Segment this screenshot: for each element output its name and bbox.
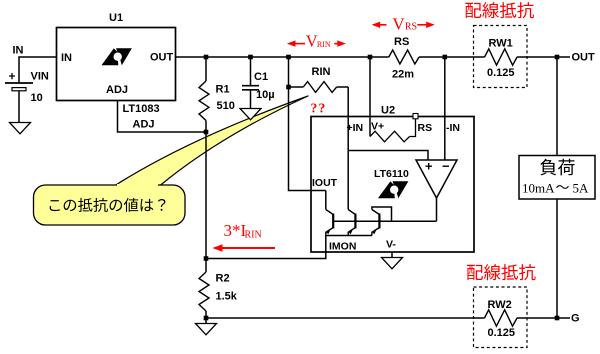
svg-text:10: 10 <box>31 92 43 104</box>
svg-text:ADJ: ADJ <box>133 119 155 131</box>
ground at R2 <box>196 324 217 335</box>
svg-text:V+: V+ <box>371 121 384 133</box>
svg-text:ADJ: ADJ <box>106 84 128 96</box>
wire +IN down to Q2 collector <box>347 151 349 210</box>
svg-text:RW1: RW1 <box>489 38 513 50</box>
wire +IN to op-amp <box>348 151 428 161</box>
resistor R1 510 <box>199 57 235 121</box>
svg-text:IOUT: IOUT <box>312 177 338 189</box>
svg-text:RW2: RW2 <box>488 299 512 311</box>
junction RIN/OUT <box>286 55 291 60</box>
internal sense resistor V+ to RS pin <box>370 119 416 142</box>
annotation VRIN <box>287 31 346 50</box>
resistor RW2 0.125 (wiring resistance) <box>474 287 528 348</box>
svg-text:RIN: RIN <box>317 40 331 49</box>
svg-text:-IN: -IN <box>446 122 460 134</box>
resistor RW1 0.125 (wiring resistance) <box>474 26 528 88</box>
resistor R2 1.5k <box>199 272 238 318</box>
base rail <box>333 220 436 222</box>
regulator U1 LT1083 <box>57 12 176 131</box>
svg-text:RIN: RIN <box>245 230 262 241</box>
junction IMON/R2 <box>204 256 209 261</box>
junction load top <box>555 55 560 60</box>
svg-text:+IN: +IN <box>347 122 364 134</box>
svg-text:OUT: OUT <box>150 52 174 64</box>
svg-text:22m: 22m <box>392 69 414 81</box>
wire IMON to R2 node <box>206 236 326 259</box>
svg-text:V-: V- <box>386 239 396 251</box>
wire Q3 collector to base rail <box>372 207 392 221</box>
junction load bottom <box>555 316 560 321</box>
wire V- to ground <box>391 252 393 258</box>
svg-text:10µ: 10µ <box>256 89 275 101</box>
RS pin square <box>413 114 418 119</box>
wire R1 bottom to IMON junction <box>205 121 207 273</box>
wire op-amp output to base rail <box>436 198 438 221</box>
svg-text:RIN: RIN <box>312 66 331 78</box>
junction ADJ <box>204 130 209 135</box>
svg-text:5A: 5A <box>573 180 590 195</box>
wire load top <box>556 57 558 156</box>
annotation VRS <box>372 15 435 34</box>
svg-text:LT1083: LT1083 <box>123 103 160 115</box>
wire G net (R2 to RW2) <box>206 317 485 319</box>
voltage source VIN <box>5 71 49 105</box>
annotation 配線抵抗 bottom <box>467 264 536 280</box>
ground at V- <box>382 258 403 269</box>
svg-text:0.125: 0.125 <box>488 327 516 339</box>
resistor RIN <box>289 66 349 92</box>
op-amp U2 internal <box>416 160 457 198</box>
junction R2 bottom <box>204 316 209 321</box>
wire RS to RW1 <box>419 56 485 58</box>
svg-text:1.5k: 1.5k <box>216 291 238 303</box>
emitter rail <box>326 235 372 237</box>
resistor RS 22m <box>389 36 419 81</box>
junction -IN/OUT <box>443 55 448 60</box>
svg-text:10mA: 10mA <box>522 180 555 195</box>
svg-text:G: G <box>571 313 580 325</box>
svg-text:VIN: VIN <box>31 71 49 83</box>
annotation 配線抵抗 top <box>465 2 534 18</box>
wire load bottom <box>556 199 558 318</box>
junction R1/OUT <box>204 55 209 60</box>
svg-text:R1: R1 <box>216 84 230 96</box>
junction C1/OUT <box>248 55 253 60</box>
svg-text:U1: U1 <box>109 12 123 24</box>
wire ADJ pin to R1/R2 node <box>118 101 207 133</box>
load box 負荷 10mA-5A <box>519 156 595 200</box>
transistor Q3 (diode connected) <box>372 210 380 236</box>
svg-text:3*I: 3*I <box>224 221 247 240</box>
wire -IN pin from OUT net <box>444 57 446 160</box>
svg-text:RS: RS <box>418 122 433 134</box>
ground at VIN <box>10 123 31 134</box>
svg-text:V: V <box>392 15 405 34</box>
svg-text:RS: RS <box>405 22 417 33</box>
transistor Q1 <box>326 210 333 236</box>
svg-text:LT6110: LT6110 <box>374 168 409 180</box>
transistor Q2 <box>348 210 355 236</box>
wire RW1 to OUT terminal <box>517 56 570 58</box>
U2 LT logo <box>378 181 408 198</box>
svg-text:RS: RS <box>394 36 409 48</box>
wire R2 to ground <box>205 318 207 324</box>
svg-text:C1: C1 <box>254 71 268 83</box>
wire RIN left down to IOUT <box>289 87 326 191</box>
wire V+ pin from OUT net <box>369 57 371 137</box>
annotation 3*IRIN current arrow <box>212 221 275 252</box>
wire OUT net (U1 OUT to RS) <box>176 56 389 58</box>
wire RW2 to G terminal <box>517 317 570 319</box>
IC U2 LT6110 box <box>311 105 474 253</box>
capacitor C1 10u <box>242 57 275 109</box>
junction RIN left <box>286 85 291 90</box>
junction V+/OUT <box>368 55 373 60</box>
svg-text:510: 510 <box>217 100 235 112</box>
svg-text:U2: U2 <box>381 105 395 117</box>
wire VIN plus to IN node <box>19 57 57 83</box>
svg-text:R2: R2 <box>216 273 230 285</box>
svg-text:IMON: IMON <box>329 241 356 253</box>
svg-text:IN: IN <box>61 52 72 64</box>
ground at C1 <box>240 109 261 120</box>
svg-text:0.125: 0.125 <box>487 67 515 79</box>
svg-text:IN: IN <box>13 45 24 57</box>
svg-text:OUT: OUT <box>572 52 596 64</box>
U1 LT logo <box>102 48 132 65</box>
svg-text:??: ?? <box>311 101 327 116</box>
wire VIN minus to ground <box>18 91 20 123</box>
wire Q1 collector to IOUT <box>325 191 327 210</box>
wire RIN to +IN pin <box>347 87 349 151</box>
wire OUT node down to RIN <box>288 57 290 87</box>
callout balloon この抵抗の値は？ <box>34 96 309 225</box>
